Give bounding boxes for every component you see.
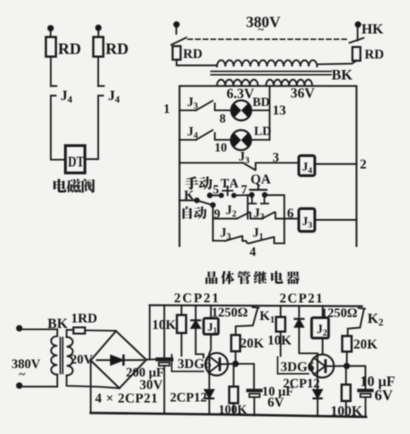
contact J3 (parallel with QA) (262, 212, 299, 219)
transformer BK (bottom) primary winding (51, 336, 57, 374)
lamp BD (231, 100, 251, 120)
contact K1 (236, 307, 259, 335)
wire (212, 205, 214, 241)
switch HK linkage (dashed) (188, 38, 347, 40)
wire (315, 163, 357, 165)
node 5 contact (208, 193, 212, 197)
resistor 10K (stage 1) (181, 305, 183, 315)
node supply terminal left branch 1 (48, 26, 53, 31)
wire (22, 329, 58, 336)
node emitter junction (stage 1) (233, 361, 238, 366)
transformer core (211, 70, 331, 72)
node 1 (165, 104, 170, 113)
label 6.3V (227, 89, 254, 99)
wire (67, 375, 120, 388)
pushbutton QA (start) (250, 193, 254, 197)
label 36V (291, 88, 315, 98)
wire parallel branch frame (247, 195, 249, 218)
node 2 (360, 160, 366, 169)
diode 2CP21 (stage 2) (298, 306, 300, 319)
label BK (48, 319, 68, 328)
fuse RD (mains right) (352, 47, 360, 61)
relay coil J3 (299, 209, 315, 232)
relay coil J1 (210, 305, 212, 318)
wire (213, 218, 237, 220)
contact J4 (branch 1) (51, 86, 66, 160)
label 380V (12, 359, 40, 368)
relay coil J4 (299, 156, 315, 176)
contact J4 (branch 2) (85, 86, 104, 159)
switch HK blade right (350, 38, 364, 43)
label HK (362, 24, 384, 33)
label 20V (71, 355, 93, 364)
wire (213, 240, 226, 242)
contact J1 (hold row) (249, 237, 284, 243)
node mains terminal bottom lower (17, 383, 22, 388)
transformer BK primary winding (217, 60, 317, 66)
wire (234, 194, 252, 196)
contact J3 (hold row) (225, 236, 249, 243)
contact J2 (237, 212, 262, 218)
wire (317, 61, 356, 65)
diode 2CP21 (stage 1) (195, 305, 197, 320)
node emitter junction (stage 2) (344, 364, 349, 369)
wire (149, 305, 151, 358)
label 2CP21 (stage 1) (175, 293, 218, 302)
wire DC positive rail (150, 305, 362, 306)
contact J3 (relay J4 row) (243, 163, 299, 170)
label 380V (top) (247, 17, 281, 28)
fuse RD (left branch 1) (46, 37, 56, 57)
bridge rectifier 4x2CP21 (91, 331, 147, 388)
title 晶体管继电器 (transistor relay) (206, 271, 300, 284)
diode 2CP12 (stage 2) (313, 390, 322, 398)
transistor 3DG6 (stage 2) (311, 354, 334, 377)
label 3DG6 frame (172, 355, 204, 372)
capacitor 10uF 6V (stage 2) (347, 366, 366, 389)
transformer 20V secondary winding (67, 337, 73, 375)
node supply terminal left branch 2 (96, 25, 101, 30)
label 3DG6 frame (stage 2) (278, 357, 309, 374)
transformer 36V secondary winding (266, 80, 312, 86)
resistor 10K (stage 2) (280, 306, 282, 317)
node 13 bus wire (269, 86, 271, 140)
diode (bridge) (97, 359, 111, 361)
selector switch K blade (195, 198, 199, 202)
contact J3 (lamp BD row) (196, 101, 231, 111)
fuse 1RD (73, 327, 85, 333)
label J4 (109, 91, 120, 103)
switch HK blade left (171, 38, 186, 45)
resistor 100K (stage 2) (345, 366, 347, 385)
label 4 x 2CP21 (95, 394, 157, 403)
wire bridge output (146, 358, 158, 360)
wire (180, 162, 244, 164)
label 2CP21 (stage 2) (280, 294, 322, 303)
wire (85, 329, 116, 332)
capacitor 200uF 30V (163, 306, 165, 358)
label RD (106, 44, 128, 55)
wire (265, 195, 285, 243)
label 自动 (auto) (183, 206, 207, 219)
wire (180, 109, 197, 111)
label RD (58, 44, 80, 55)
lamp LD (231, 130, 251, 150)
label 1250 ohm (stage 1) (213, 308, 248, 317)
wire (251, 139, 270, 141)
label 手动 (manual) (185, 176, 212, 189)
transformer 6.3V secondary winding (217, 80, 258, 86)
resistor 20K (stage 1) (231, 335, 240, 351)
resistor 20K (stage 2) (342, 336, 351, 352)
resistor 100K (stage 1) (233, 364, 235, 387)
capacitor 10uF 6V (stage 1) (236, 364, 255, 389)
wire (315, 219, 357, 221)
wire DC negative rail (91, 413, 366, 417)
label 1250 ohm (stage 2) (322, 308, 357, 317)
relay coil J2 (322, 306, 324, 318)
label K (184, 191, 194, 200)
label 电磁阀 (solenoid valve) (53, 179, 95, 193)
contact J4 (lamp LD row) (196, 130, 231, 140)
wire (180, 139, 197, 141)
solenoid coil DT (65, 146, 85, 173)
label J4 (61, 91, 72, 103)
fuse RD (mains left) (173, 46, 181, 60)
node mains left (174, 22, 179, 27)
node 9 contact (211, 203, 215, 207)
transistor 3DG6 (stage 1) (205, 353, 228, 376)
transformer core (59, 338, 61, 374)
diode 2CP12 (stage 1) (205, 390, 214, 398)
wire (180, 199, 197, 201)
contact K2 (348, 308, 365, 336)
wire (177, 60, 217, 66)
wire DC negative drop (90, 360, 92, 413)
wire (67, 330, 74, 337)
fuse RD (left branch 2) (93, 37, 103, 57)
wire (22, 375, 58, 387)
control circuit frame (180, 86, 357, 246)
node mains right (356, 22, 361, 27)
wire (251, 109, 269, 111)
wire (50, 57, 52, 86)
label BK (332, 70, 353, 80)
wire (97, 57, 99, 86)
wire (210, 194, 222, 196)
node mains terminal bottom top (17, 326, 22, 331)
pushbutton TA (stop) (220, 194, 224, 198)
